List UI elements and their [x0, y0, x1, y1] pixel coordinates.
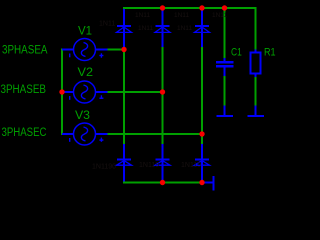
svg-text:3PHASEB: 3PHASEB — [1, 82, 47, 96]
wire R1 bottom to ground — [255, 76, 257, 106]
diode D5 — [155, 144, 170, 182]
wire right drop to R1 top — [255, 7, 257, 50]
junction dot V1 right / bus1 — [121, 47, 126, 52]
svg-text:C1: C1 — [231, 46, 242, 58]
svg-text:1N11: 1N11 — [212, 12, 227, 19]
capacitor C1 — [216, 58, 234, 76]
wire V1 right to bus1 — [107, 49, 124, 51]
voltage source V3 — [62, 123, 108, 145]
ground terminal (R1 branch) — [248, 106, 265, 118]
svg-text:1N1190: 1N1190 — [92, 164, 116, 171]
ground terminal (bottom rail) — [202, 176, 215, 191]
svg-text:V3: V3 — [75, 108, 90, 122]
wire left common vertical (source left terminals) — [61, 49, 63, 135]
resistor R1 — [251, 50, 261, 78]
wire bottom bus (anode rail to ground) — [124, 181, 202, 183]
svg-text:1N119: 1N119 — [139, 162, 159, 169]
voltage source V2 — [62, 81, 108, 103]
svg-text:V2: V2 — [78, 65, 94, 79]
wire V3 right to bus3 — [107, 133, 202, 135]
svg-text:1N11: 1N11 — [177, 25, 192, 32]
voltage source V1 — [62, 39, 108, 61]
svg-text:3PHASEC: 3PHASEC — [2, 125, 47, 139]
junction dot V3 right / bus3 — [199, 131, 204, 136]
svg-text:1N119: 1N119 — [181, 162, 201, 169]
svg-text:1N11: 1N11 — [135, 12, 150, 19]
wire bus1 vertical (D1 anode to D4 cathode) — [123, 50, 125, 146]
diode D1 — [117, 9, 132, 49]
junction dot bottom bus / D5 — [160, 180, 165, 185]
svg-text:V1: V1 — [78, 23, 92, 37]
junction dot top bus / D2 — [160, 5, 165, 10]
wire V2 right to bus2 — [107, 91, 163, 93]
svg-text:1N11: 1N11 — [99, 21, 115, 28]
diode D3 — [195, 9, 210, 47]
junction dot bottom bus / D6-ground — [199, 180, 204, 185]
svg-text:1N11: 1N11 — [174, 12, 189, 19]
svg-text:1N11: 1N11 — [138, 25, 153, 32]
junction dot top bus / D3 — [199, 5, 204, 10]
diode D4 — [117, 144, 132, 182]
junction dot V2 left / common vertical — [59, 89, 64, 94]
junction dot V2 right / bus2 — [160, 89, 165, 94]
svg-text:R1: R1 — [264, 47, 276, 59]
wire C1 bottom to ground — [224, 75, 226, 106]
wire top bus (cathode rail to R1) — [123, 7, 257, 9]
diode D6 — [195, 144, 210, 182]
junction dot top bus / C1 — [222, 5, 227, 10]
wire C1 top branch — [224, 8, 226, 58]
ground terminal (C1 branch) — [217, 106, 234, 118]
wire bus3 vertical (D3 anode to D6 cathode) — [201, 46, 203, 145]
diode D2 — [155, 9, 170, 47]
svg-text:3PHASEA: 3PHASEA — [2, 43, 48, 57]
wire bus2 vertical (D2 anode to D5 cathode) — [162, 46, 164, 145]
